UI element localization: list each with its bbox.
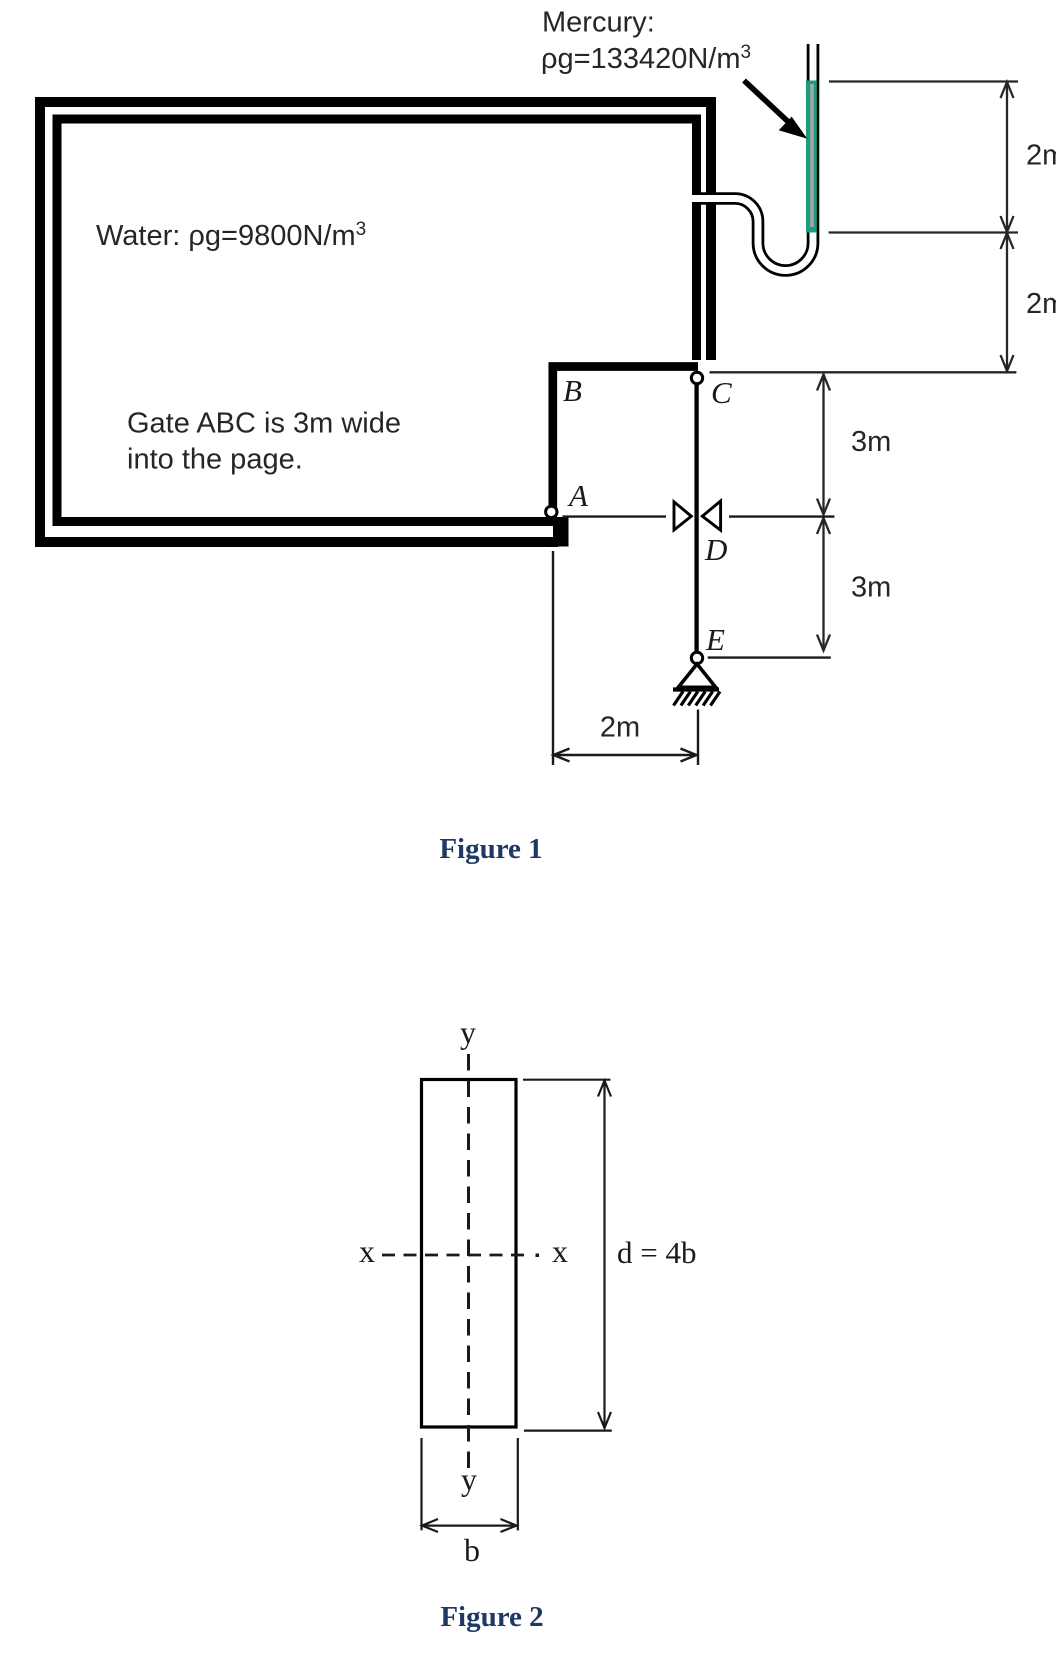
hinge circle A (546, 506, 557, 517)
svg-text:x: x (552, 1233, 568, 1269)
figure2 x axis dashed (382, 1254, 531, 1257)
svg-text:d = 4b: d = 4b (617, 1235, 696, 1270)
tank inner wall (57, 119, 697, 522)
figure2 b dim horizontal (422, 1519, 517, 1532)
hinge circle E (691, 652, 702, 663)
svg-text:A: A (567, 478, 589, 513)
tank outer wall (40, 102, 711, 542)
svg-text:b: b (464, 1532, 480, 1568)
mercury column (806, 81, 817, 233)
svg-text:y: y (461, 1461, 477, 1497)
figure2 y axis dashed (467, 1054, 470, 1469)
svg-text:Mercury:: Mercury: (542, 7, 655, 39)
svg-text:Water: ρg=9800N/m3: Water: ρg=9800N/m3 (96, 219, 366, 252)
3m dim vertical lower (817, 518, 830, 651)
svg-text:Gate ABC is 3m wide: Gate ABC is 3m wide (127, 408, 401, 440)
svg-text:3m: 3m (851, 572, 891, 604)
3m dim vertical upper (817, 375, 830, 515)
line E level (708, 656, 831, 658)
ext line below E (697, 710, 699, 766)
figure2 ext line below left (420, 1438, 422, 1530)
valve bowtie at D (674, 501, 721, 530)
figure2 d dim ext bottom (524, 1429, 612, 1431)
figure2 d dim vertical (598, 1081, 611, 1429)
figure2 ext line below right (517, 1438, 519, 1530)
bottom wall end cap (553, 517, 569, 547)
figure2 rectangle (422, 1080, 517, 1428)
hinge circle C (691, 372, 702, 383)
svg-text:Figure 2: Figure 2 (440, 1601, 543, 1633)
dim line mercury bottom level (829, 231, 1018, 233)
2m dim horizontal bottom (554, 749, 697, 762)
svg-text:2m: 2m (1026, 140, 1056, 172)
dim line mercury top level (829, 80, 1018, 82)
svg-text:x: x (359, 1233, 375, 1269)
ext line below A (552, 551, 554, 765)
svg-text:y: y (460, 1014, 476, 1050)
svg-text:C: C (711, 375, 732, 410)
figure2 x axis end dot (536, 1254, 540, 1258)
svg-text:Figure 1: Figure 1 (439, 833, 542, 865)
mercury pointer arrow (744, 81, 804, 137)
mercury core highlight (810, 84, 814, 227)
svg-text:into the page.: into the page. (127, 444, 303, 476)
svg-text:ρg=133420N/m3: ρg=133420N/m3 (541, 42, 751, 75)
line D to dim (729, 515, 835, 517)
2m dim vertical upper (1001, 82, 1014, 232)
2m dim vertical lower (1001, 233, 1014, 371)
gate ABC thick wall (553, 367, 698, 525)
svg-text:3m: 3m (851, 426, 891, 458)
figure2 d dim ext top (523, 1079, 610, 1081)
svg-text:E: E (705, 622, 725, 657)
svg-text:2m: 2m (600, 712, 640, 744)
svg-text:B: B (563, 373, 582, 408)
dim line C level (710, 371, 1017, 373)
line A to D (563, 515, 667, 517)
manometer tube (692, 44, 813, 271)
pin support at E (673, 664, 720, 706)
svg-text:D: D (704, 532, 727, 567)
svg-text:2m: 2m (1026, 288, 1056, 320)
gate rod C-E (694, 378, 698, 658)
